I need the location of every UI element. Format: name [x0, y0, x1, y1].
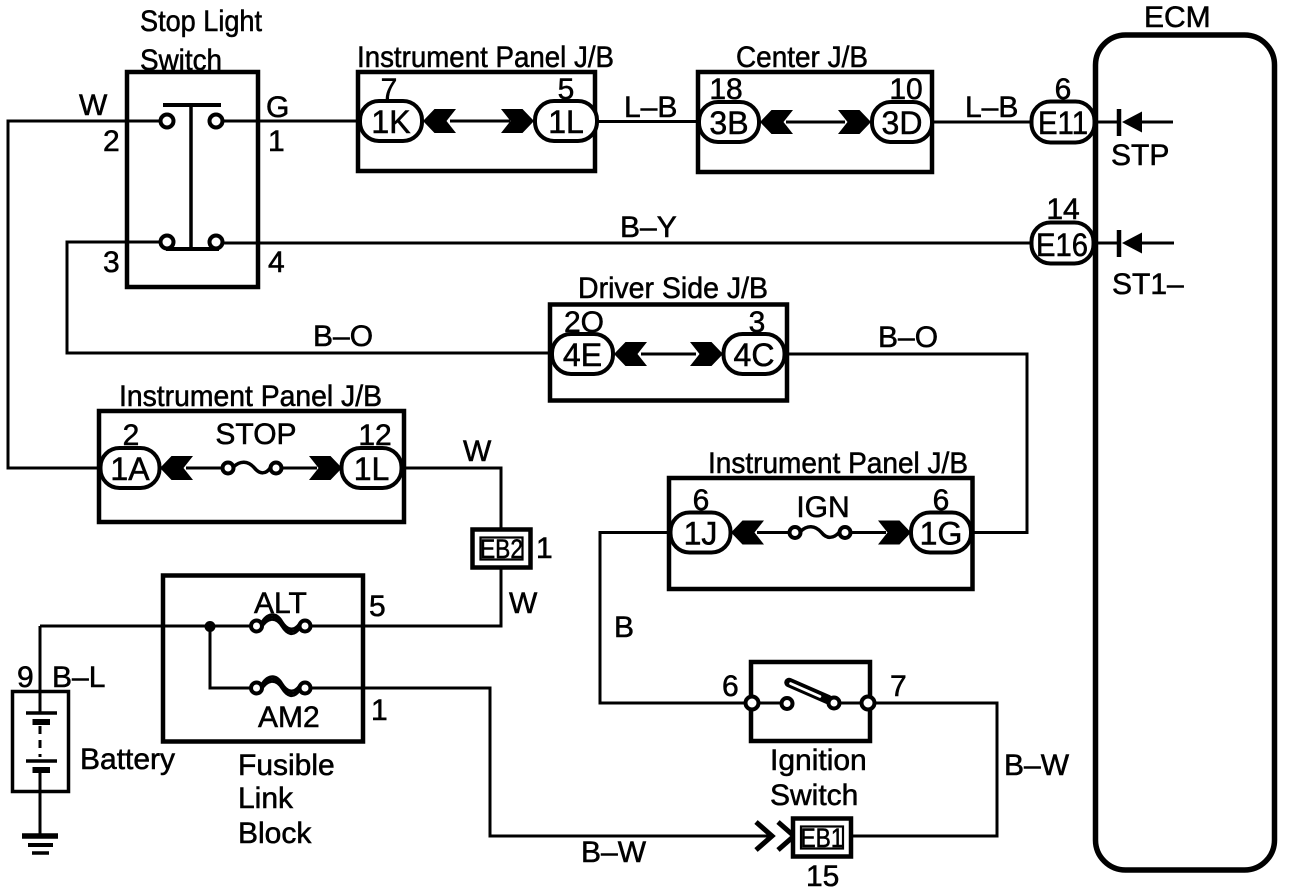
- svg-text:Instrument Panel J/B: Instrument Panel J/B: [357, 41, 614, 74]
- label Fusible Link Block: [238, 749, 335, 850]
- svg-text:15: 15: [806, 860, 839, 892]
- svg-text:L–B: L–B: [624, 91, 677, 124]
- wire between arrows: [786, 121, 845, 124]
- svg-text:Link: Link: [238, 782, 294, 815]
- connector 4C: [724, 334, 785, 374]
- connector E11: [1032, 102, 1095, 143]
- svg-text:1L: 1L: [548, 104, 584, 140]
- svg-text:B–O: B–O: [313, 320, 373, 353]
- switch terminal 3: [161, 236, 174, 249]
- svg-text:1: 1: [371, 694, 388, 727]
- svg-text:Ignition: Ignition: [770, 744, 867, 777]
- wire B from 1J to ignition switch: [600, 533, 746, 704]
- arrow left (to 3B): [760, 110, 793, 134]
- fusible link AM2: [251, 677, 311, 696]
- connector 1J: [671, 513, 731, 553]
- wire through IGN fuse row: [757, 531, 790, 534]
- svg-text:B–L: B–L: [52, 661, 105, 694]
- svg-text:G: G: [266, 91, 289, 124]
- chevron 2: [778, 822, 794, 850]
- svg-text:1A: 1A: [110, 451, 150, 487]
- svg-text:Block: Block: [238, 817, 312, 850]
- instrument panel J/B box (IGN): [669, 478, 973, 589]
- instrument panel J/B box (STOP): [99, 411, 404, 522]
- ignition switch terminal left edge: [746, 697, 759, 710]
- junction dot: [205, 621, 216, 632]
- svg-text:2: 2: [103, 125, 120, 158]
- svg-text:Driver Side J/B: Driver Side J/B: [578, 272, 768, 305]
- svg-text:Stop Light: Stop Light: [140, 5, 263, 38]
- svg-text:4C: 4C: [734, 337, 775, 373]
- svg-text:B–Y: B–Y: [620, 211, 677, 244]
- arrow left (to 4E): [614, 342, 647, 366]
- svg-text:ECM: ECM: [1144, 1, 1211, 34]
- svg-text:W: W: [79, 89, 108, 122]
- diode STP anode wire: [1142, 121, 1173, 124]
- wire between arrows: [450, 120, 510, 123]
- svg-text:ALT: ALT: [254, 587, 307, 620]
- wire ALT fuse to W vertical: [311, 625, 503, 628]
- fuse STOP symbol: [223, 462, 282, 473]
- wire battery to ALT fuse: [40, 625, 251, 628]
- wire G from terminal 1 to connector 1K: [223, 120, 361, 123]
- wire between arrows: [641, 353, 696, 356]
- connector 1L: [535, 101, 597, 141]
- svg-text:1: 1: [268, 125, 285, 158]
- switch terminal 2: [161, 115, 174, 128]
- wire W horizontal from left bus to stop light switch terminal 2: [8, 121, 161, 468]
- wire into STP diode: [1094, 121, 1119, 124]
- label Ignition Switch: [770, 744, 867, 812]
- svg-text:Switch: Switch: [770, 779, 858, 812]
- wire battery to ground: [39, 770, 42, 834]
- svg-text:Battery: Battery: [80, 743, 175, 776]
- arrow right (to 3D): [838, 110, 871, 134]
- battery plates: [26, 713, 57, 770]
- wire inner right to edge: [840, 702, 861, 705]
- svg-text:Center J/B: Center J/B: [736, 41, 868, 74]
- svg-text:B–O: B–O: [878, 321, 938, 354]
- ignition switch box: [751, 662, 870, 741]
- fusible link block box: [163, 576, 363, 742]
- arrow right (to 1L): [309, 456, 342, 480]
- instrument panel J/B box (top): [358, 72, 595, 171]
- arrow right (to 1G): [878, 521, 911, 545]
- arrow left (to 1K): [423, 109, 456, 133]
- fusible link ALT: [251, 615, 311, 634]
- connector 1L (STOP box): [342, 448, 402, 488]
- svg-text:Fusible: Fusible: [238, 749, 335, 782]
- wire inner terminals: [759, 702, 781, 705]
- wire through fuse row: [186, 467, 223, 470]
- driver side J/B box: [550, 305, 787, 401]
- svg-text:E11: E11: [1038, 105, 1088, 141]
- svg-text:L–B: L–B: [965, 91, 1018, 124]
- wire from terminal 3 down-left to B-O row: [67, 242, 553, 353]
- connector 1A: [101, 448, 160, 488]
- diode STP triangle: [1122, 112, 1142, 133]
- svg-text:5: 5: [369, 590, 386, 623]
- connector EB2: [473, 530, 531, 568]
- arrow left (to 1A): [160, 456, 193, 480]
- connector EB1: [793, 819, 851, 857]
- wire B-O from 4C to 1G via right vertical: [785, 354, 1027, 533]
- ground: [22, 836, 58, 853]
- arrow right (to 1L): [501, 109, 534, 133]
- center J/B box: [698, 72, 932, 172]
- connector 1K: [360, 101, 422, 141]
- svg-text:B–W: B–W: [1004, 749, 1070, 782]
- wire from ignition switch pin 7 down to EB1: [852, 703, 997, 836]
- diode STP cathode bar: [1117, 109, 1122, 136]
- ECM box: [1096, 35, 1275, 870]
- switch blade top bar: [163, 103, 221, 107]
- ignition switch terminal right edge: [862, 697, 875, 710]
- svg-text:4: 4: [268, 246, 285, 279]
- wire W from EB2 down to ALT row: [500, 568, 503, 628]
- svg-text:6: 6: [722, 670, 739, 703]
- wire AM2 out to EB1 row: [311, 688, 770, 836]
- svg-text:Instrument Panel J/B: Instrument Panel J/B: [119, 380, 382, 413]
- svg-text:3D: 3D: [882, 105, 923, 141]
- wire into ST1 diode: [1093, 242, 1119, 245]
- svg-text:4E: 4E: [563, 337, 602, 373]
- diode ST1 triangle: [1122, 233, 1142, 254]
- svg-text:B: B: [614, 611, 634, 644]
- svg-text:9: 9: [17, 661, 34, 694]
- wire B-Y from terminal 4 to connector E16: [223, 242, 1032, 245]
- svg-text:1J: 1J: [684, 516, 718, 552]
- arrow right (to 4C): [690, 342, 723, 366]
- connector 4E: [552, 334, 613, 374]
- svg-text:Instrument Panel J/B: Instrument Panel J/B: [708, 447, 968, 480]
- svg-text:AM2: AM2: [258, 701, 320, 734]
- wire L-B between 1L and 3B: [597, 120, 700, 123]
- connector 3B: [699, 102, 759, 142]
- arrow left (to 1J): [731, 521, 764, 545]
- wire junction down to AM2: [210, 627, 251, 689]
- ignition switch lever: [789, 683, 828, 700]
- svg-text:Switch: Switch: [140, 44, 222, 77]
- svg-text:ST1–: ST1–: [1112, 268, 1184, 301]
- svg-text:EB2: EB2: [480, 534, 523, 564]
- connector 3D: [872, 102, 932, 142]
- switch terminal 4: [210, 236, 223, 249]
- diode ST1 anode wire: [1142, 242, 1174, 245]
- svg-text:E16: E16: [1036, 227, 1088, 263]
- switch terminal 1: [210, 115, 223, 128]
- label Stop Light Switch: [140, 5, 263, 77]
- svg-text:STOP: STOP: [215, 418, 296, 451]
- svg-text:EB1: EB1: [801, 823, 844, 853]
- svg-text:1K: 1K: [371, 104, 410, 140]
- connector E16: [1032, 223, 1094, 264]
- wire battery top lead: [39, 626, 42, 713]
- svg-text:B–W: B–W: [581, 836, 647, 869]
- svg-text:1G: 1G: [920, 516, 963, 552]
- svg-text:1: 1: [536, 532, 553, 565]
- ignition switch terminal inner left: [782, 698, 793, 709]
- battery box: [13, 692, 69, 792]
- stop light switch box: [127, 72, 258, 287]
- svg-text:7: 7: [890, 670, 907, 703]
- connector 1G: [911, 513, 971, 553]
- svg-text:STP: STP: [1111, 139, 1169, 172]
- svg-text:1L: 1L: [354, 451, 390, 487]
- svg-text:W: W: [463, 435, 492, 468]
- fuse IGN symbol: [790, 527, 851, 538]
- switch blade vertical: [189, 105, 193, 249]
- svg-text:3B: 3B: [709, 105, 748, 141]
- chevron 1: [756, 822, 772, 850]
- wire W from 1L down to EB2: [402, 468, 501, 529]
- svg-text:W: W: [509, 587, 538, 620]
- svg-text:IGN: IGN: [796, 491, 849, 524]
- switch blade bottom bar: [166, 247, 219, 251]
- wire L-B between 3D and E11: [932, 121, 1033, 124]
- svg-text:3: 3: [103, 246, 120, 279]
- diode ST1 cathode bar: [1117, 230, 1122, 257]
- ignition switch terminal inner right: [829, 698, 840, 709]
